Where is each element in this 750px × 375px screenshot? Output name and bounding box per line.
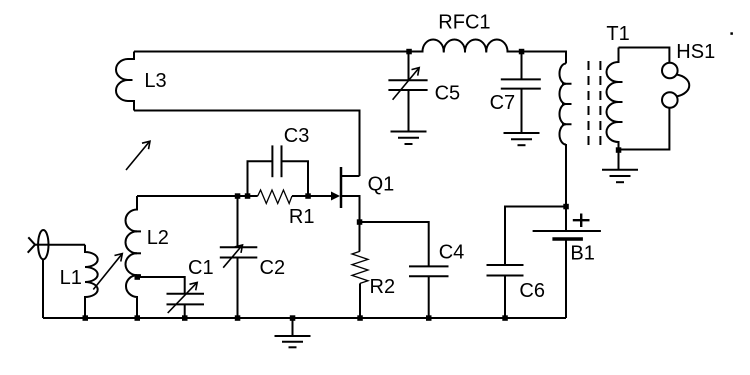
svg-text:T1: T1 xyxy=(606,23,629,45)
node battery C6 junction xyxy=(563,204,569,210)
resistor R2 xyxy=(352,222,368,318)
inductor L3 xyxy=(116,52,134,111)
svg-text:C3: C3 xyxy=(284,125,310,147)
wire source to C4 xyxy=(360,222,429,266)
battery B1 xyxy=(533,231,601,239)
node C2 bottom xyxy=(235,315,241,321)
wire C2 branch xyxy=(237,196,239,247)
ground below T1 xyxy=(602,170,638,182)
svg-text:C4: C4 xyxy=(439,241,465,263)
stray dot xyxy=(730,32,733,35)
wire C2 to rail xyxy=(237,258,239,319)
coupling arrow L2-L3 xyxy=(126,141,150,170)
node C2 junction xyxy=(235,193,241,199)
wire T1 secondary top to HS1 xyxy=(619,48,670,63)
wire C4 to rail xyxy=(428,276,430,318)
plus sign xyxy=(573,214,590,228)
svg-text:R2: R2 xyxy=(370,276,396,298)
inductor L2 xyxy=(126,196,141,318)
wire L2 top to gate line xyxy=(137,195,248,197)
wire battery to rail xyxy=(565,239,567,318)
svg-text:L1: L1 xyxy=(60,267,82,289)
capacitor C6 xyxy=(487,265,524,276)
coupling arrow L1-L2 xyxy=(93,254,122,290)
svg-text:C6: C6 xyxy=(519,280,545,302)
svg-text:B1: B1 xyxy=(570,243,594,265)
wire gate xyxy=(308,195,334,197)
transformer T1 primary xyxy=(559,64,571,145)
wire L3 bottom to Q1 drain xyxy=(134,111,360,177)
resistor R1 xyxy=(248,190,309,204)
node L1 bottom xyxy=(83,315,89,321)
wire top rail to T1 primary xyxy=(522,52,567,64)
svg-text:C5: C5 xyxy=(435,83,461,105)
main ground xyxy=(275,336,311,347)
wire HS1 to T1 bottom xyxy=(621,108,669,150)
svg-text:Q1: Q1 xyxy=(368,174,395,196)
node C6 bottom xyxy=(502,315,508,321)
node T1 secondary bottom xyxy=(616,147,622,153)
node top rail C5 xyxy=(406,49,412,55)
node R2 bottom xyxy=(357,315,363,321)
node C1 bottom xyxy=(182,315,188,321)
wire C5 branch xyxy=(408,52,410,81)
headset HS1 xyxy=(662,63,689,108)
capacitor C5 (variable) xyxy=(388,68,427,100)
node R1 right xyxy=(305,193,311,199)
wire C1 to rail xyxy=(184,304,186,318)
svg-text:C2: C2 xyxy=(260,257,286,279)
svg-text:RFC1: RFC1 xyxy=(438,12,490,34)
capacitor C1 (variable) xyxy=(167,282,205,313)
wire L2 tap to C1 xyxy=(140,277,185,294)
node C4 bottom xyxy=(426,315,432,321)
svg-text:HS1: HS1 xyxy=(676,41,715,63)
main ground stem xyxy=(292,318,294,337)
svg-text:C7: C7 xyxy=(490,92,516,114)
transformer T1 core xyxy=(589,61,601,146)
transformer T1 secondary xyxy=(607,48,623,151)
gate arrowhead xyxy=(331,192,340,201)
wire T1 secondary bottom to ground xyxy=(618,150,620,170)
capacitor C2 (variable) xyxy=(220,245,257,268)
wire C5 to ground xyxy=(408,90,410,132)
capacitor C3 xyxy=(248,145,309,196)
ground rail xyxy=(43,317,566,319)
inductor RFC1 xyxy=(409,39,522,52)
wire C6 to rail xyxy=(504,276,506,319)
node L2 tap xyxy=(135,274,141,280)
capacitor C7 xyxy=(501,79,541,88)
wire T1 primary to battery xyxy=(565,144,567,231)
wire top rail L3 to C5 node xyxy=(134,51,409,53)
transistor Q1 xyxy=(341,167,360,222)
node top rail C7 xyxy=(519,49,525,55)
svg-text:L2: L2 xyxy=(147,227,169,249)
node R1 left xyxy=(245,193,251,199)
wire antenna to L1 xyxy=(49,244,85,246)
wire antenna to ground rail xyxy=(42,259,44,318)
capacitor C4 xyxy=(409,266,449,276)
svg-text:R1: R1 xyxy=(289,206,315,228)
inductor L1 xyxy=(85,245,98,318)
ground below C5 xyxy=(391,132,427,145)
node main ground xyxy=(290,315,296,321)
svg-text:L3: L3 xyxy=(144,70,166,92)
node L2 bottom xyxy=(135,315,141,321)
antenna xyxy=(28,230,49,259)
wire C7 to ground xyxy=(521,89,523,133)
wire C7 branch xyxy=(521,52,523,80)
node Q1 source junction xyxy=(357,219,363,225)
ground below C7 xyxy=(504,133,540,145)
wire C6 top xyxy=(505,207,566,266)
svg-text:C1: C1 xyxy=(188,257,214,279)
